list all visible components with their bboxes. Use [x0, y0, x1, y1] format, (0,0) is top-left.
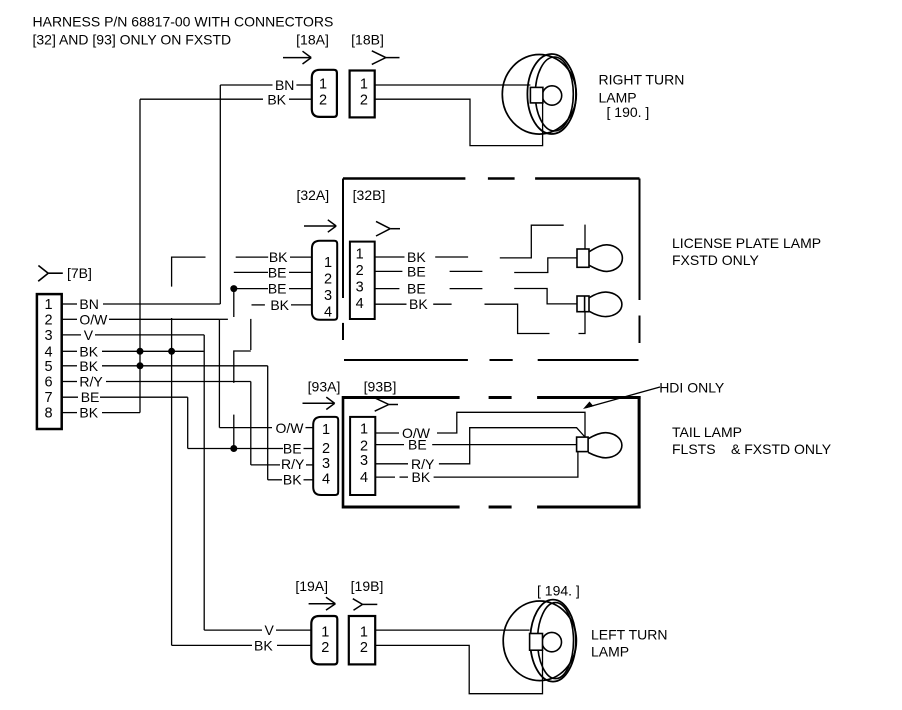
svg-text:[32B]: [32B] — [353, 187, 386, 203]
svg-text:1: 1 — [324, 255, 332, 271]
svg-text:[32A]: [32A] — [296, 187, 329, 203]
svg-text:FLSTS: FLSTS — [672, 441, 716, 457]
wire 93B pin4 BK to tail bulb — [375, 452, 578, 478]
wire 18B pin1 to lamp — [375, 84, 531, 86]
wire 32B pin3 BE segments to bottom bulb — [375, 289, 577, 304]
svg-text:2: 2 — [360, 640, 368, 656]
svg-text:1: 1 — [322, 422, 330, 438]
license bulb 2 — [577, 292, 622, 317]
wire 18B pin2 to lamp — [375, 99, 543, 145]
svg-text:4: 4 — [322, 472, 330, 488]
wire 19B pin2 to lamp — [375, 645, 543, 693]
wire 32A pin2 segments — [234, 271, 312, 273]
svg-text:BK: BK — [79, 343, 98, 359]
socket symbol 7B — [38, 266, 63, 282]
wire V to 19A — [204, 629, 311, 631]
tail lamp box bottom edge — [343, 506, 641, 509]
right turn lamp — [502, 54, 576, 134]
wire V vertical to 19A — [203, 335, 205, 630]
connector 19B pins — [360, 624, 368, 656]
svg-text:LEFT TURN: LEFT TURN — [591, 627, 668, 643]
license plate dashed box left edge / 32 mating line — [342, 179, 344, 341]
junction dot BK row4 x171 — [168, 348, 175, 355]
connector 18B box — [350, 71, 375, 118]
svg-text:2: 2 — [44, 313, 52, 329]
license plate lamp label — [672, 235, 821, 268]
svg-text:2: 2 — [322, 441, 330, 457]
wire BK vertical to 19A — [171, 318, 173, 645]
svg-text:BE: BE — [407, 263, 426, 279]
svg-text:BN: BN — [79, 296, 98, 312]
svg-text:2: 2 — [319, 92, 327, 108]
section separator dashed line — [344, 359, 639, 361]
svg-text:BK: BK — [267, 92, 286, 108]
wire 93A pin1 O/W row — [219, 427, 313, 429]
wire BK to 18A — [140, 98, 312, 100]
wire 32A pin1 segments — [172, 257, 312, 287]
arrow symbol 93A — [303, 397, 335, 409]
svg-text:4: 4 — [360, 470, 368, 486]
connector 93B pins — [360, 422, 368, 487]
socket symbol 93B — [375, 398, 398, 411]
wire 32B pin2 BE segments to top bulb — [375, 258, 577, 273]
arrow symbol 32A — [304, 220, 336, 232]
svg-text:2: 2 — [360, 92, 368, 108]
tail lamp box left edge / 93 mating line — [342, 396, 345, 509]
socket symbol 32B — [376, 221, 400, 236]
svg-text:LAMP: LAMP — [591, 644, 629, 660]
svg-text:V: V — [265, 622, 275, 638]
svg-text:3: 3 — [360, 453, 368, 469]
left turn lamp — [503, 600, 576, 682]
svg-text:V: V — [84, 327, 94, 343]
license bulb 1 — [577, 245, 622, 272]
wire 7B pin1 BN row — [62, 303, 221, 305]
wire 93A pin2 BE row — [188, 448, 314, 450]
svg-text:O/W: O/W — [276, 420, 305, 436]
license plate dashed box right edge — [639, 179, 641, 344]
svg-text:4: 4 — [44, 344, 52, 360]
svg-text:[ 190. ]: [ 190. ] — [607, 104, 650, 120]
svg-text:BE: BE — [407, 281, 426, 297]
svg-text:BK: BK — [270, 297, 289, 313]
svg-text:4: 4 — [356, 296, 364, 312]
socket symbol 18B — [372, 51, 400, 65]
wire 7B pin8 BK row — [62, 412, 140, 414]
arrow symbol 18A — [283, 51, 311, 64]
connector 32B box — [350, 242, 375, 319]
svg-text:[93B]: [93B] — [364, 379, 397, 395]
wire 93B pin3 R/Y to tail bulb — [375, 428, 584, 464]
svg-text:[18A]: [18A] — [296, 32, 329, 48]
svg-text:6: 6 — [44, 375, 52, 391]
wire 19B pin1 to lamp — [375, 629, 530, 631]
svg-text:1: 1 — [360, 76, 368, 92]
wire 32A pin4 segments — [252, 304, 312, 306]
svg-text:R/Y: R/Y — [79, 374, 103, 390]
svg-text:& FXSTD ONLY: & FXSTD ONLY — [731, 441, 832, 457]
svg-text:2: 2 — [321, 640, 329, 656]
note harness text — [33, 14, 334, 48]
svg-text:BE: BE — [268, 281, 287, 297]
connector 18B pins — [360, 76, 368, 108]
svg-text:R/Y: R/Y — [281, 456, 305, 472]
junction dot BE 32A pin3 — [230, 285, 237, 292]
svg-text:HARNESS P/N 68817-00 WITH CONN: HARNESS P/N 68817-00 WITH CONNECTORS — [33, 14, 334, 30]
wire BE vertical to 93A — [187, 397, 189, 448]
wire R/Y vertical to 93A — [250, 382, 252, 465]
connector 32A box — [312, 241, 337, 320]
wire 7B pin3 V row — [62, 334, 205, 336]
left turn lamp label — [591, 627, 668, 660]
svg-text:2: 2 — [356, 263, 364, 279]
svg-text:BK: BK — [409, 296, 428, 312]
connector 93A pins — [322, 422, 330, 488]
svg-text:HDI ONLY: HDI ONLY — [659, 380, 725, 396]
svg-text:[ 194. ]: [ 194. ] — [537, 583, 580, 599]
wire 32B pin4 BK segments to bottom bulb — [375, 296, 585, 334]
svg-text:1: 1 — [356, 247, 364, 263]
svg-text:1: 1 — [321, 624, 329, 640]
svg-text:BK: BK — [283, 472, 302, 488]
connector 32A pins — [324, 255, 332, 321]
wire 7B pin2 O/W row — [62, 318, 220, 320]
junction dot BK row4 x140 — [137, 348, 144, 355]
svg-text:BK: BK — [79, 405, 98, 421]
connector 19A box — [311, 616, 337, 664]
socket symbol 19B — [353, 599, 378, 611]
connector 18A box — [312, 70, 337, 117]
svg-text:[18B]: [18B] — [351, 32, 384, 48]
wire 93A pin4 BK row — [268, 479, 314, 481]
svg-text:2: 2 — [324, 272, 332, 288]
tail lamp box top edge — [343, 396, 641, 399]
wire 7B pin4 BK row — [62, 350, 204, 352]
tail lamp box right edge — [638, 396, 641, 509]
right turn lamp label — [599, 72, 685, 121]
svg-text:1: 1 — [360, 422, 368, 438]
tail lamp bulb — [577, 433, 622, 458]
svg-text:8: 8 — [44, 406, 52, 422]
svg-text:3: 3 — [324, 288, 332, 304]
svg-text:5: 5 — [44, 359, 52, 375]
wire 32B pin1 BK segments to top bulb — [375, 225, 585, 258]
svg-text:O/W: O/W — [79, 312, 108, 328]
svg-text:BK: BK — [412, 469, 431, 485]
license plate dashed box top edge — [343, 177, 640, 179]
tail lamp label — [672, 424, 832, 457]
wire BN vertical — [219, 85, 221, 304]
connector 18A pins — [319, 76, 327, 108]
svg-text:[32] AND [93] ONLY ON FXSTD: [32] AND [93] ONLY ON FXSTD — [33, 32, 232, 48]
wire 7B pin5 BK row — [62, 365, 268, 367]
svg-text:3: 3 — [322, 456, 330, 472]
svg-text:[93A]: [93A] — [308, 379, 341, 395]
wire 93B pin2 BE to tail bulb — [375, 444, 576, 446]
connector 7B pins — [44, 297, 52, 422]
svg-text:7: 7 — [44, 390, 52, 406]
svg-text:1: 1 — [360, 624, 368, 640]
connector 19A pins — [321, 624, 329, 656]
svg-text:RIGHT TURN: RIGHT TURN — [599, 72, 685, 88]
wire 32A pin3 segments — [234, 288, 312, 290]
svg-text:BK: BK — [269, 249, 288, 265]
svg-text:FXSTD ONLY: FXSTD ONLY — [672, 252, 760, 268]
wire 7B pin7 BE row — [62, 396, 188, 398]
svg-text:1: 1 — [319, 76, 327, 92]
svg-text:BE: BE — [283, 440, 302, 456]
svg-text:3: 3 — [356, 280, 364, 296]
svg-text:BK: BK — [79, 358, 98, 374]
arrow symbol 19A — [309, 597, 336, 610]
connector 7B box — [37, 294, 62, 429]
wire 93A pin3 R/Y row — [251, 464, 313, 466]
junction dot BE 93A row — [230, 445, 237, 452]
svg-text:[19A]: [19A] — [295, 578, 328, 594]
connector 19B box — [349, 616, 375, 664]
wire 93B pin1 O/W to tail bulb — [375, 412, 585, 437]
svg-text:BE: BE — [81, 389, 100, 405]
svg-text:1: 1 — [44, 297, 52, 313]
svg-text:TAIL LAMP: TAIL LAMP — [672, 424, 742, 440]
junction dot BK row5 x140 — [137, 362, 144, 369]
svg-text:BE: BE — [268, 264, 287, 280]
svg-text:[19B]: [19B] — [351, 578, 384, 594]
connector 32B pins — [356, 247, 364, 313]
wire BN to 18A — [220, 84, 311, 86]
dashed BE link segments — [219, 289, 250, 449]
svg-text:3: 3 — [44, 328, 52, 344]
svg-text:BE: BE — [408, 437, 427, 453]
wire BK to 19A — [172, 644, 312, 646]
svg-text:BK: BK — [254, 637, 273, 653]
wire 7B pin6 R/Y row — [62, 381, 251, 383]
svg-text:4: 4 — [324, 305, 332, 321]
wire O/W vertical to 93A — [218, 319, 220, 427]
HDI ONLY leader arrow — [583, 387, 660, 409]
connector 93A box — [313, 417, 338, 495]
wire BK vertical to 93A — [267, 366, 269, 480]
connector 93B box — [350, 417, 375, 495]
svg-text:LICENSE PLATE LAMP: LICENSE PLATE LAMP — [672, 235, 821, 251]
wire BK net vertical — [139, 99, 141, 412]
svg-text:[7B]: [7B] — [67, 265, 92, 281]
